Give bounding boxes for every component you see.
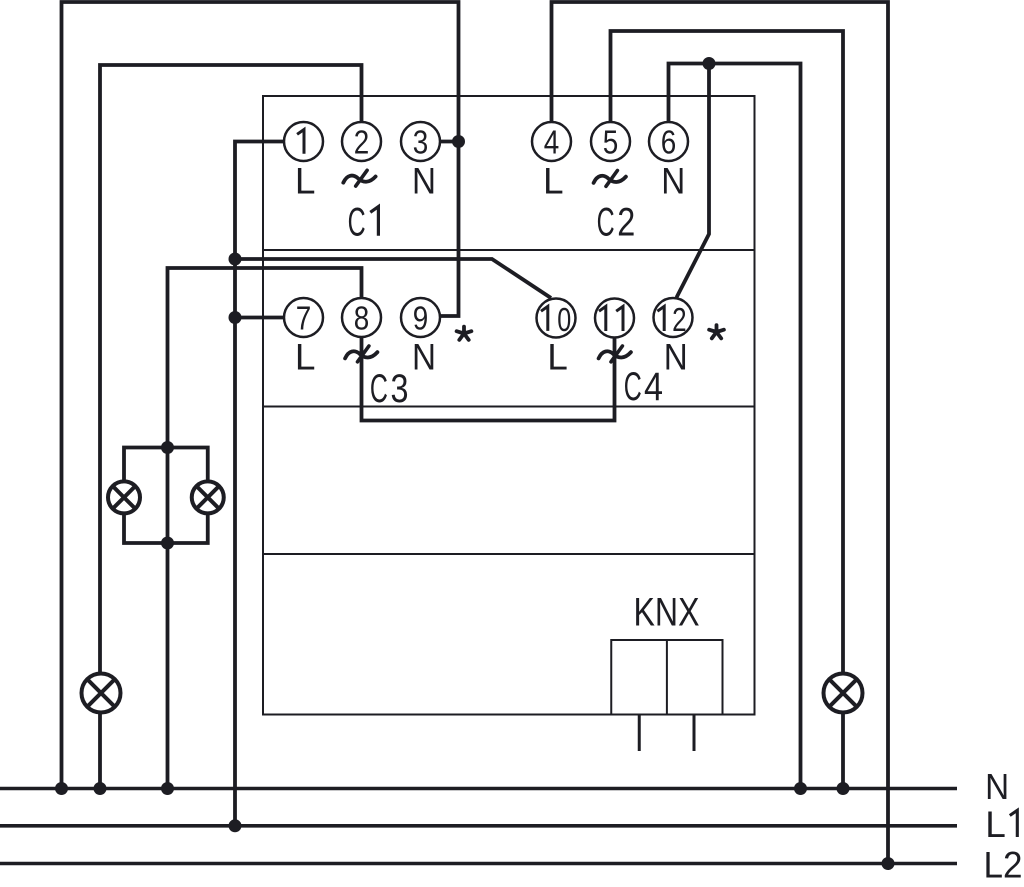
dimmer symbol C3: [345, 346, 377, 362]
junction N-bus x167: [161, 782, 174, 795]
svg-text:4: 4: [544, 125, 560, 162]
lamp E2: [108, 481, 140, 513]
junction L2-bus x888: [882, 857, 895, 870]
device section divider 1: [263, 249, 755, 251]
svg-text:N: N: [412, 160, 436, 201]
wire stub terminal 3 to junction: [440, 140, 459, 144]
lamp E1: [82, 674, 121, 713]
terminal 2: [342, 122, 381, 162]
svg-text:4: 4: [644, 365, 663, 409]
lamp pair branch rectangle: [124, 448, 208, 544]
svg-text:9: 9: [413, 301, 429, 338]
wire N-bus to terminal 3 (left outer loop): [62, 2, 459, 789]
svg-text:N: N: [661, 160, 685, 201]
wire terminal 8 to lamp pair and N-bus: [168, 268, 362, 789]
device section divider 3: [263, 553, 755, 555]
dimmer symbol C4: [599, 346, 631, 362]
asterisk C3: [457, 327, 472, 340]
svg-text:L: L: [295, 337, 316, 378]
KNX bus pin 1: [638, 715, 641, 752]
svg-text:C: C: [348, 201, 366, 245]
terminal 12: [654, 298, 693, 339]
wire L2-bus to terminal 4 (right outer loop): [552, 2, 889, 864]
junction N-bus x843: [837, 782, 850, 795]
dimmer symbol C1: [343, 170, 375, 186]
lamp E3: [192, 481, 224, 513]
junction N-bus x800: [794, 782, 807, 795]
wire terminal 5 to lamp E4 (right middle loop): [611, 31, 844, 789]
KNX connector block: [611, 640, 722, 715]
wire link terminal 8 to terminal 11: [362, 337, 615, 421]
KNX bus pin 2: [693, 715, 696, 752]
wire terminal 2 to lamp E1 (left inner loop): [100, 65, 362, 789]
terminal 6: [649, 122, 688, 162]
svg-text:7: 7: [296, 301, 312, 338]
wire terminal 6 to N-bus (right inner loop): [669, 64, 801, 789]
svg-text:L: L: [985, 804, 1006, 845]
junction L wire to terminal 7: [229, 311, 242, 324]
svg-text:C: C: [597, 201, 615, 245]
svg-text:L2: L2: [984, 844, 1023, 885]
bus line L2: [0, 862, 957, 866]
svg-text:C: C: [624, 365, 642, 409]
svg-text:3: 3: [413, 125, 429, 162]
svg-text:L: L: [295, 160, 316, 201]
junction lamp pair bottom: [161, 537, 174, 550]
svg-text:N: N: [412, 337, 436, 378]
bus line N: [0, 787, 957, 791]
device section divider 2: [263, 406, 755, 408]
svg-text:N: N: [664, 337, 688, 378]
junction L1-bus x235: [229, 819, 242, 832]
dimmer symbol C2: [594, 171, 626, 187]
wire L1-bus to terminal 1: [235, 142, 284, 826]
terminal 11: [595, 299, 634, 338]
junction N-bus x100: [94, 782, 107, 795]
junction N-bus x61: [55, 782, 68, 795]
svg-text:KNX: KNX: [634, 591, 700, 635]
svg-text:N: N: [985, 766, 1009, 807]
terminal 8: [342, 298, 381, 338]
wire branch to terminal 10: [235, 259, 551, 298]
svg-text:L: L: [547, 337, 568, 378]
svg-text:2: 2: [617, 201, 635, 245]
asterisk C4: [709, 325, 724, 338]
bus line L1: [0, 824, 957, 828]
svg-text:8: 8: [354, 301, 370, 338]
junction L wire to terminal 10: [229, 253, 242, 266]
svg-text:2: 2: [672, 302, 687, 339]
svg-text:6: 6: [661, 125, 677, 162]
lamp E4: [824, 674, 863, 713]
terminal 9: [401, 298, 440, 338]
junction on N wire of C2/C4: [703, 57, 716, 70]
svg-text:L: L: [543, 160, 564, 201]
svg-text:2: 2: [354, 125, 370, 162]
svg-text:5: 5: [603, 125, 619, 162]
svg-text:0: 0: [557, 302, 571, 339]
terminal 1: [284, 122, 323, 161]
junction at terminal 3: [452, 135, 465, 148]
device outline box: [263, 96, 755, 715]
svg-text:3: 3: [391, 367, 409, 411]
terminal 7: [284, 298, 323, 338]
terminal 10: [537, 299, 576, 339]
junction lamp pair top: [161, 441, 174, 454]
wire junction to terminal 12: [677, 64, 710, 298]
svg-text:C: C: [370, 367, 388, 411]
wire branch to terminal 7: [235, 316, 284, 320]
terminal 5: [591, 122, 630, 162]
terminal 3: [401, 122, 440, 162]
terminal 4: [532, 122, 571, 162]
